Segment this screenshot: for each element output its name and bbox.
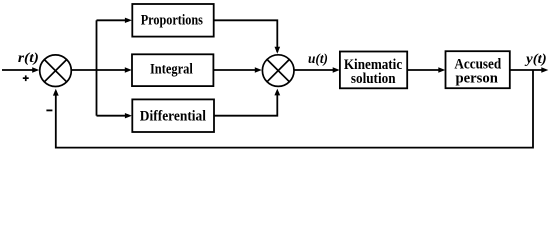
svg-text:Differential: Differential xyxy=(140,109,206,125)
svg-text:person: person xyxy=(456,70,499,86)
svg-text:r(t): r(t) xyxy=(18,51,39,66)
svg-text:y(t): y(t) xyxy=(524,52,547,67)
svg-text:Integral: Integral xyxy=(150,62,193,78)
svg-text:solution: solution xyxy=(351,71,396,87)
svg-text:Proportions: Proportions xyxy=(141,12,203,28)
svg-text:u(t): u(t) xyxy=(308,52,328,67)
